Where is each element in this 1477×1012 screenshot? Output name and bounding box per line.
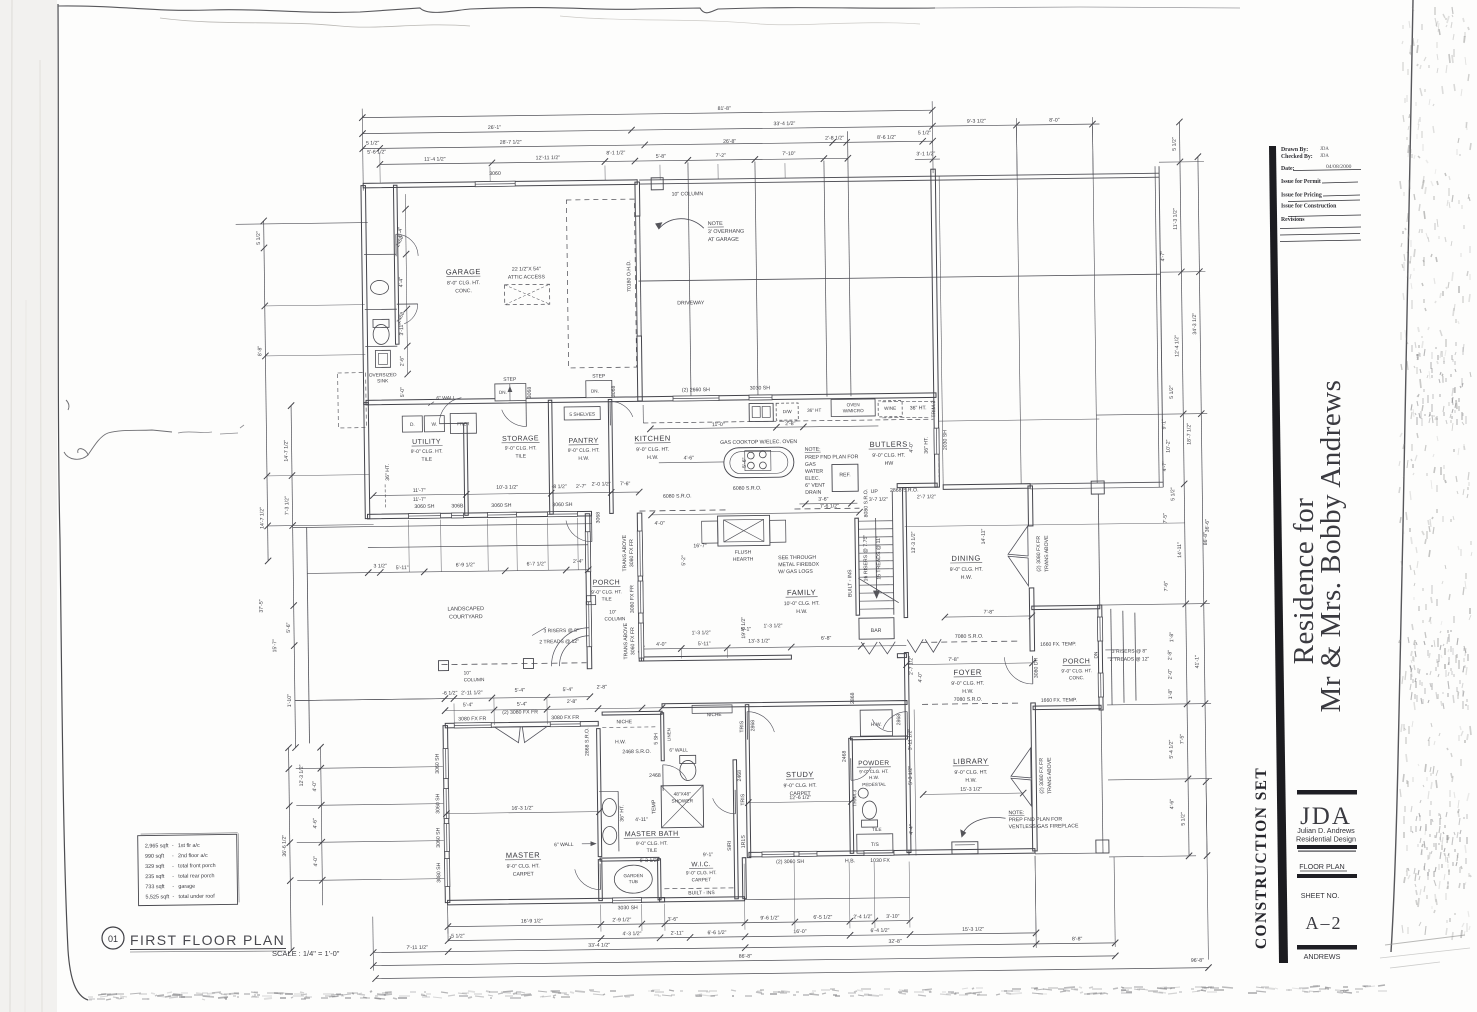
- svg-text:TUB: TUB: [629, 879, 638, 884]
- svg-text:9'-0" CLG. HT.: 9'-0" CLG. HT.: [505, 445, 537, 451]
- svg-text:5 1/2": 5 1/2": [1172, 137, 1178, 151]
- shower 48x48: [661, 785, 704, 828]
- wall: family bottom / foyer top y=658: [641, 655, 791, 661]
- svg-text:1st flr a/c: 1st flr a/c: [178, 843, 200, 849]
- svg-text:3' OVERHANG: 3' OVERHANG: [708, 229, 744, 235]
- svg-text:2030 SH: 2030 SH: [942, 430, 948, 451]
- svg-text:LIBRARY: LIBRARY: [953, 757, 989, 766]
- svg-text:1'-8": 1'-8": [1168, 689, 1174, 700]
- svg-text:H.W.: H.W.: [578, 456, 589, 462]
- svg-text:9'-0" CLG. HT.: 9'-0" CLG. HT.: [951, 681, 984, 687]
- svg-text:15 TREADS @ 11": 15 TREADS @ 11": [876, 536, 883, 580]
- svg-text:WATER: WATER: [805, 469, 823, 475]
- svg-text:2468 S.R.O.: 2468 S.R.O.: [622, 749, 651, 755]
- svg-text:Checked By:: Checked By:: [1281, 154, 1313, 160]
- title block: heavy vertical bar: [1269, 146, 1288, 963]
- windows 3060 SH on bottom wall: [408, 513, 440, 518]
- svg-text:DN: DN: [1093, 651, 1099, 659]
- svg-text:BAR: BAR: [871, 628, 882, 634]
- bar box: [859, 618, 894, 639]
- svg-text:BUTLERS: BUTLERS: [870, 440, 908, 449]
- svg-text:A–2: A–2: [1306, 913, 1343, 933]
- svg-text:6" WALL: 6" WALL: [669, 747, 688, 753]
- svg-text:3060: 3060: [489, 171, 501, 177]
- porch step arcs into courtyard: [559, 636, 589, 666]
- courtyard dim chain: [307, 570, 588, 574]
- svg-text:9'-0" CLG. HT.: 9'-0" CLG. HT.: [686, 870, 717, 876]
- svg-text:8'-8": 8'-8": [1072, 936, 1083, 942]
- svg-text:12'-4 1/2": 12'-4 1/2": [1174, 335, 1180, 357]
- svg-text:04/08/2000: 04/08/2000: [1326, 164, 1352, 170]
- svg-text:REF.: REF.: [839, 472, 850, 478]
- svg-text:3'-6": 3'-6": [668, 917, 679, 923]
- svg-text:3068: 3068: [527, 387, 533, 399]
- svg-text:JDA: JDA: [1320, 147, 1329, 152]
- svg-text:6080 S.R.O.: 6080 S.R.O.: [663, 493, 692, 499]
- master top bay double window: [494, 727, 520, 743]
- svg-text:16'-0": 16'-0": [793, 929, 806, 935]
- area summary table: [138, 833, 239, 906]
- svg-text:5'-8": 5'-8": [656, 154, 667, 160]
- wall: garage closet column: [393, 185, 399, 344]
- svg-text:CARPET: CARPET: [692, 877, 712, 883]
- svg-text:6'-4 1/2": 6'-4 1/2": [870, 928, 889, 934]
- svg-text:7080 S.R.O.: 7080 S.R.O.: [955, 634, 984, 640]
- svg-text:3060 FX FR: 3060 FX FR: [630, 627, 636, 655]
- window 2030 SH on butlers right wall: [934, 428, 939, 454]
- svg-text:8'-0" CLG. HT.: 8'-0" CLG. HT.: [447, 280, 480, 286]
- wall: master bottom y=899: [448, 898, 665, 905]
- svg-text:3060 SH: 3060 SH: [436, 827, 442, 848]
- dim chain: right vertical x=1185: [1179, 122, 1189, 856]
- window extension lines to courtyard dim: [408, 520, 411, 572]
- bottom dim row 4 total: [373, 956, 1115, 966]
- svg-text:5 1/2": 5 1/2": [256, 231, 262, 245]
- svg-text:6'-5 1/2": 6'-5 1/2": [813, 915, 832, 921]
- kitchen dim row under counter: [650, 426, 878, 429]
- powder tub/shower: [857, 834, 893, 853]
- svg-text:2468: 2468: [737, 770, 743, 782]
- svg-text:8'-8": 8'-8": [257, 346, 263, 357]
- svg-text:TILE: TILE: [515, 454, 526, 460]
- wall: garage top exterior: [363, 180, 637, 188]
- svg-text:4'-3 1/2": 4'-3 1/2": [622, 931, 641, 937]
- svg-text:TILE: TILE: [602, 596, 612, 602]
- svg-text:3060 SH: 3060 SH: [414, 504, 435, 510]
- svg-text:4'-0": 4'-0": [656, 642, 667, 648]
- svg-text:33'-4 1/2": 33'-4 1/2": [588, 942, 610, 948]
- wall: family/stair divider x=857: [855, 518, 860, 615]
- scan artifact: right margin speckle texture: [1399, 7, 1472, 940]
- svg-text:6'-8": 6'-8": [821, 636, 832, 642]
- svg-text:86'-8": 86'-8": [739, 954, 752, 960]
- svg-text:12'-6 1/2": 12'-6 1/2": [789, 795, 811, 801]
- upper right zone long verticals: [1016, 127, 1021, 484]
- kitchen sink under window: [749, 403, 773, 421]
- svg-text:total front porch: total front porch: [178, 863, 216, 869]
- powder pedestal sink: [858, 788, 868, 798]
- wall: master top y=722: [445, 721, 598, 728]
- svg-text:5 1/2": 5 1/2": [918, 130, 932, 136]
- wall: dining top y=490: [943, 484, 1030, 490]
- svg-text:5'-4": 5'-4": [517, 702, 528, 708]
- svg-text:GARAGE: GARAGE: [446, 267, 481, 276]
- svg-text:-6 1/2": -6 1/2": [442, 690, 457, 696]
- svg-text:PORCH: PORCH: [1063, 658, 1090, 665]
- svg-text:WINE: WINE: [884, 406, 896, 411]
- svg-text:10": 10": [464, 670, 471, 676]
- svg-text:2468: 2468: [649, 773, 661, 779]
- svg-text:(2) 3080 FX FR: (2) 3080 FX FR: [1039, 758, 1045, 794]
- svg-text:8'-1 1/2": 8'-1 1/2": [606, 150, 625, 156]
- wall: library right x=1031: [1031, 703, 1037, 851]
- svg-text:STUDY: STUDY: [786, 770, 814, 779]
- center porch column: [587, 596, 596, 605]
- wall: connector wic-study: [742, 858, 746, 899]
- svg-text:8'-0": 8'-0": [1049, 118, 1060, 124]
- double door swing marks below bar: [861, 642, 877, 654]
- svg-text:PREP FND PLAN FOR: PREP FND PLAN FOR: [1009, 817, 1063, 824]
- svg-text:FRZR: FRZR: [457, 421, 470, 426]
- svg-text:8080 S.R.O.: 8080 S.R.O.: [863, 489, 869, 518]
- master interior dim: [446, 812, 599, 814]
- linen closet: [661, 713, 665, 761]
- svg-text:SINK: SINK: [377, 378, 389, 384]
- svg-text:48"X48": 48"X48": [674, 791, 692, 797]
- svg-text:H.W.: H.W.: [796, 609, 807, 615]
- svg-text:13'-3 1/2": 13'-3 1/2": [748, 638, 770, 644]
- garage interior dim ticks: [405, 194, 407, 374]
- svg-text:2868: 2868: [850, 692, 856, 704]
- svg-text:HW: HW: [885, 461, 894, 467]
- svg-text:14'-11": 14'-11": [1177, 542, 1183, 558]
- svg-text:3068: 3068: [611, 385, 617, 397]
- svg-text:SIRI: SIRI: [727, 841, 733, 851]
- svg-text:3'-7 1/2": 3'-7 1/2": [869, 497, 888, 503]
- svg-text:STEP: STEP: [592, 373, 606, 379]
- svg-text:8'-6 1/2": 8'-6 1/2": [877, 135, 896, 141]
- bath door 2468: [662, 765, 664, 791]
- svg-text:TRANS ABOVE: TRANS ABOVE: [622, 534, 628, 571]
- svg-text:3080 FX FR: 3080 FX FR: [458, 716, 486, 722]
- bottom dim row 5 grand total: [376, 968, 1209, 979]
- window 3030 SH kitchen top: [749, 395, 772, 400]
- svg-text:2,965 sqft: 2,965 sqft: [145, 843, 169, 849]
- porch top/bottom walls: [1032, 605, 1100, 609]
- svg-text:3080 FX FR: 3080 FX FR: [551, 715, 579, 721]
- svg-text:3 1/2": 3 1/2": [373, 563, 387, 569]
- svg-text:3060 SH: 3060 SH: [435, 793, 441, 814]
- opening: steps at kitchen door: [586, 380, 612, 397]
- right dim connectors: [1159, 161, 1204, 164]
- dashed header kitchen-family: [639, 510, 725, 511]
- scan artifact: top paper edge wavy line: [58, 6, 935, 13]
- svg-text:2'-8": 2'-8": [567, 699, 578, 705]
- svg-text:10" COLUMN: 10" COLUMN: [672, 191, 704, 197]
- wall: band bottom window wall y=505: [368, 511, 592, 518]
- kitchen island with gas cooktop: [724, 447, 794, 478]
- porch right wall windows with labels: [637, 531, 643, 576]
- svg-text:2'-11 1/2": 2'-11 1/2": [461, 690, 483, 696]
- svg-text:12'-11 1/2": 12'-11 1/2": [536, 155, 561, 161]
- svg-text:5 SHELVES: 5 SHELVES: [569, 412, 595, 418]
- svg-text:10'-3 1/2": 10'-3 1/2": [496, 485, 518, 491]
- svg-text:2868 S.R.O.: 2868 S.R.O.: [584, 727, 590, 756]
- garage closet: toilet: [373, 324, 389, 344]
- svg-text:(2) 3060 SH: (2) 3060 SH: [776, 859, 804, 865]
- svg-text:9'-0" CLG. HT.: 9'-0" CLG. HT.: [507, 863, 540, 869]
- svg-text:7080 S.R.O.: 7080 S.R.O.: [954, 697, 983, 703]
- wall: storage/pantry divider: [548, 400, 553, 514]
- svg-text:16 RISERS @ 7.75": 16 RISERS @ 7.75": [863, 535, 870, 582]
- svg-text:11'-3 1/2": 11'-3 1/2": [1173, 208, 1179, 230]
- svg-text:9'-0" CLG. HT.: 9'-0" CLG. HT.: [872, 453, 905, 459]
- svg-text:16'-3 1/2": 16'-3 1/2": [511, 805, 533, 811]
- svg-text:6" WALL: 6" WALL: [436, 395, 456, 401]
- patio column at 1098: [1091, 481, 1104, 494]
- svg-text:(2) 2660 SH: (2) 2660 SH: [682, 387, 710, 393]
- svg-text:(2) 3080 FX FR: (2) 3080 FX FR: [502, 709, 538, 715]
- stair direction arrow: [876, 518, 877, 598]
- svg-text:3'-1 1/2": 3'-1 1/2": [916, 151, 935, 157]
- svg-text:1'-3 1/2": 1'-3 1/2": [763, 623, 782, 629]
- master door arc: [599, 864, 601, 890]
- wall: study left x=745: [745, 705, 751, 858]
- staircase treads: [892, 491, 894, 615]
- extension verticals below master/study to dim rows: [447, 907, 449, 934]
- svg-text:DRIVEWAY: DRIVEWAY: [677, 300, 705, 306]
- svg-text:FIRST FLOOR PLAN: FIRST FLOOR PLAN: [130, 932, 285, 948]
- svg-text:2nd floor a/c: 2nd floor a/c: [178, 853, 208, 859]
- svg-text:FLOOR PLAN: FLOOR PLAN: [1299, 862, 1345, 871]
- pantry shelves: [564, 407, 600, 420]
- svg-text:3060 SH: 3060 SH: [435, 753, 441, 774]
- svg-text:W.I.C.: W.I.C.: [691, 861, 711, 868]
- svg-text:1660 FX. TEMP.: 1660 FX. TEMP.: [1040, 641, 1076, 647]
- svg-text:H.B.: H.B.: [845, 858, 855, 864]
- svg-text:-8 1/2": -8 1/2": [552, 484, 567, 490]
- svg-text:TRIM.3: TRIM.3: [852, 790, 858, 807]
- svg-text:3 RISERS @ 8": 3 RISERS @ 8": [543, 628, 578, 634]
- svg-text:28'-7 1/2": 28'-7 1/2": [500, 140, 522, 146]
- svg-text:9'-0" CLG. HT.: 9'-0" CLG. HT.: [568, 448, 600, 454]
- svg-text:garage: garage: [178, 884, 195, 890]
- svg-text:5'-6": 5'-6": [286, 622, 292, 633]
- svg-text:2'-7 1/2": 2'-7 1/2": [908, 656, 914, 675]
- bath toilet: [680, 760, 696, 780]
- wall: dining right x=1031: [1028, 486, 1033, 526]
- svg-text:16'-9 1/2": 16'-9 1/2": [521, 918, 543, 924]
- courtyard bottom dashed line with columns: [441, 663, 586, 665]
- svg-text:-: -: [172, 894, 174, 900]
- svg-text:FOYER: FOYER: [953, 668, 982, 677]
- garage closet: oversized sink: [375, 350, 390, 367]
- svg-text:LINEN: LINEN: [666, 728, 671, 741]
- family bottom dim row: [641, 646, 906, 649]
- svg-text:7'-8": 7'-8": [984, 609, 995, 615]
- svg-text:TRIS: TRIS: [739, 720, 745, 732]
- svg-text:5 1/2": 5 1/2": [1170, 487, 1176, 501]
- svg-text:OVERSIZED: OVERSIZED: [369, 372, 397, 378]
- dim chain: right vertical x=1203: [1198, 157, 1207, 856]
- wic door from bath: [734, 790, 736, 814]
- kitchen island dim: [659, 461, 724, 464]
- svg-text:6'-6 1/2": 6'-6 1/2": [707, 930, 726, 936]
- svg-text:H.W.: H.W.: [962, 689, 973, 695]
- svg-text:5'-6 1/2": 5'-6 1/2": [367, 149, 386, 155]
- svg-text:10'-2": 10'-2": [1166, 439, 1172, 452]
- svg-text:3060 SH: 3060 SH: [552, 502, 573, 508]
- svg-text:4'-4": 4'-4": [909, 824, 915, 835]
- svg-text:H.W.: H.W.: [615, 739, 626, 745]
- svg-text:70180 O.H.D.: 70180 O.H.D.: [626, 260, 632, 292]
- svg-text:TRANS ABOVE: TRANS ABOVE: [1044, 535, 1050, 572]
- svg-text:5'-0": 5'-0": [400, 387, 406, 398]
- svg-text:6" WALL: 6" WALL: [554, 842, 574, 848]
- svg-text:16'-7": 16'-7": [693, 543, 706, 549]
- svg-text:NICHE: NICHE: [616, 719, 632, 725]
- svg-text:TRANS ABOVE: TRANS ABOVE: [623, 622, 629, 659]
- svg-text:4'-11": 4'-11": [635, 817, 648, 823]
- svg-text:4'-7": 4'-7": [1160, 251, 1166, 262]
- library fireplace box: [952, 842, 978, 854]
- powder top wall: [850, 736, 907, 740]
- family dim extension verticals: [680, 649, 682, 659]
- band interior dim row: [373, 492, 639, 495]
- wic built-ins dashed: [664, 887, 736, 890]
- svg-text:ATTIC ACCESS: ATTIC ACCESS: [508, 274, 546, 280]
- svg-text:11'-7": 11'-7": [413, 497, 426, 503]
- dashed utility lines left of garage: [338, 373, 367, 428]
- svg-text:7'-3 1/2": 7'-3 1/2": [284, 496, 290, 515]
- courtyard left edge: [307, 527, 310, 743]
- svg-text:ANDREWS: ANDREWS: [1304, 952, 1341, 961]
- svg-text:TEMP: TEMP: [651, 799, 657, 814]
- scan artifact: right margin darker patches: [1411, 342, 1466, 426]
- svg-text:6080 S.R.O.: 6080 S.R.O.: [733, 485, 762, 491]
- dim chain: master window spacing x=318: [321, 747, 323, 905]
- powder toilet: [862, 801, 876, 819]
- refrigerator box: [832, 464, 858, 491]
- svg-text:SHOWER: SHOWER: [671, 798, 693, 804]
- scan artifact: right paper edge line: [1391, 0, 1413, 952]
- svg-text:235 sqft: 235 sqft: [145, 874, 165, 880]
- svg-text:4'-0": 4'-0": [313, 856, 319, 867]
- attic access dashed rect: [505, 284, 550, 305]
- svg-text:18'-7 1/2": 18'-7 1/2": [1186, 423, 1192, 445]
- svg-text:TILE: TILE: [421, 457, 432, 463]
- dining bottom dim: [945, 616, 1032, 617]
- svg-text:10": 10": [609, 609, 616, 615]
- svg-text:4'-6": 4'-6": [312, 818, 318, 829]
- svg-text:FAMILY: FAMILY: [787, 588, 816, 597]
- svg-text:2'-11": 2'-11": [671, 931, 684, 937]
- scan artifact: bottom right slanted streaks: [1385, 935, 1465, 945]
- svg-text:VENTLESS GAS FIREPLACE: VENTLESS GAS FIREPLACE: [1009, 823, 1079, 830]
- svg-text:2'-7 1/2": 2'-7 1/2": [917, 494, 936, 500]
- svg-text:01: 01: [108, 934, 118, 944]
- svg-text:GAS COOKTOP W/ELEC. OVEN: GAS COOKTOP W/ELEC. OVEN: [720, 439, 797, 446]
- wall: band top y=398: [366, 393, 936, 405]
- scan artifact: left margin strip: [0, 0, 57, 1012]
- svg-text:36" HT.: 36" HT.: [619, 805, 625, 822]
- garage overhead door 70180 O.H.D.: [636, 216, 638, 336]
- svg-text:total rear porch: total rear porch: [178, 873, 214, 879]
- svg-text:3080 SH: 3080 SH: [436, 862, 442, 883]
- master left windows 3060 SH: [443, 749, 448, 779]
- svg-text:2'-8": 2'-8": [785, 421, 796, 427]
- wall: butlers bottom y=488: [897, 483, 937, 488]
- svg-text:11'-0": 11'-0": [712, 422, 725, 428]
- wall: wic bottom y=899: [660, 897, 745, 902]
- svg-text:3030 SH: 3030 SH: [750, 385, 771, 391]
- porch windows 1660 FX TEMP: [1097, 617, 1102, 641]
- master top windows 3080 FX FR: [454, 723, 491, 728]
- svg-text:7'-11 1/2": 7'-11 1/2": [406, 945, 428, 951]
- bay extension lines: [493, 698, 495, 725]
- svg-text:TRANS ABOVE: TRANS ABOVE: [1047, 757, 1053, 794]
- svg-text:COURTYARD: COURTYARD: [449, 614, 483, 620]
- opening: steps at storage door: [495, 384, 526, 401]
- scan artifact: left wrinkle squiggle: [64, 430, 172, 459]
- utility appliances D W FRZR: [402, 416, 422, 432]
- svg-text:5'-4": 5'-4": [398, 227, 404, 238]
- svg-text:2'-0 1/2": 2'-0 1/2": [592, 481, 611, 487]
- svg-text:5'-3 1/2": 5'-3 1/2": [908, 766, 914, 785]
- svg-text:3'-6": 3'-6": [818, 497, 829, 503]
- svg-text:86'-8": 86'-8": [1203, 532, 1209, 545]
- top boundary line to right corner: [639, 173, 1159, 180]
- svg-text:OVEN: OVEN: [847, 402, 860, 407]
- svg-text:CONSTRUCTION SET: CONSTRUCTION SET: [1253, 767, 1270, 949]
- svg-text:2468: 2468: [842, 750, 848, 762]
- svg-text:-: -: [172, 884, 174, 890]
- svg-text:-5 1/2": -5 1/2": [449, 933, 464, 939]
- wall: band left x=368: [364, 403, 370, 519]
- bottom dim row 2: [448, 933, 1036, 941]
- wall: library bottom y=855: [909, 849, 1035, 855]
- svg-text:HEARTH: HEARTH: [733, 557, 754, 563]
- stair break diagonal: [858, 578, 898, 604]
- driveway vertical lines / overhang posts: [688, 162, 691, 398]
- svg-text:7'-2": 7'-2": [716, 153, 727, 159]
- svg-text:41'-1": 41'-1": [1194, 655, 1200, 668]
- svg-text:14'-7 1/2": 14'-7 1/2": [259, 507, 265, 529]
- svg-text:2 TREADS @ 12": 2 TREADS @ 12": [539, 639, 579, 646]
- svg-text:DINING: DINING: [951, 554, 980, 563]
- wall: porch right x=1099: [1098, 605, 1103, 710]
- svg-text:7'-5": 7'-5": [1163, 513, 1169, 524]
- porch left wall windows: [585, 532, 591, 572]
- svg-text:4'-6": 4'-6": [684, 455, 695, 461]
- svg-text:13'-3 1/2": 13'-3 1/2": [911, 531, 917, 553]
- dining bay window double casement: [1008, 526, 1028, 556]
- garage closet: sink oval: [370, 280, 388, 294]
- svg-text:5 1/2": 5 1/2": [1180, 812, 1186, 826]
- svg-text:9'-0" CLG. HT.: 9'-0" CLG. HT.: [784, 783, 817, 789]
- patio edge x=1099: [1098, 494, 1099, 605]
- foyer dim row: [907, 663, 1033, 665]
- svg-text:2'-8 1/2": 2'-8 1/2": [825, 135, 844, 141]
- powder door: [850, 758, 852, 780]
- wall: wic right x=732: [733, 760, 738, 899]
- svg-text:H.W.: H.W.: [647, 455, 658, 461]
- svg-text:LANDSCAPED: LANDSCAPED: [447, 606, 484, 612]
- svg-text:3080 FX FR: 3080 FX FR: [629, 539, 635, 567]
- family dim row top: [652, 512, 860, 515]
- scan artifact: bottom speckle band: [88, 985, 1387, 1000]
- svg-text:26'-8": 26'-8": [723, 139, 736, 145]
